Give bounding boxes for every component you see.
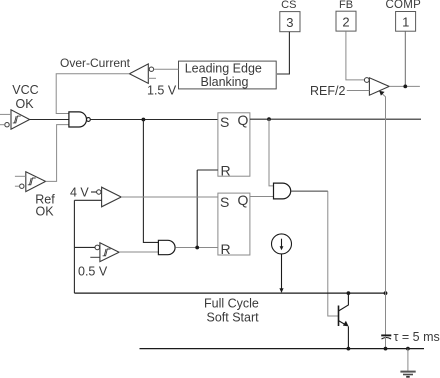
wire NAND output to latch1 S input (90, 119, 218, 121)
node junction capacitor on ground rail (384, 347, 388, 351)
wire latch1 R input (197, 169, 218, 171)
pin CS box pin 3 (280, 12, 300, 32)
pin FB box pin 2 (336, 11, 356, 31)
svg-text:1: 1 (402, 15, 409, 30)
svg-text:Leading Edge: Leading Edge (185, 62, 262, 76)
node junction ground tap on ground rail (406, 347, 410, 351)
node junction NAND output branch (142, 118, 146, 122)
wire soft-start horizontal rail (74, 292, 385, 294)
wire COMP pin down to REF/2 output node (404, 31, 406, 86)
wire VCC OK inverting input (0, 124, 5, 126)
node junction latch1 Q branch (267, 117, 271, 121)
svg-text:Q: Q (237, 112, 248, 128)
svg-text:1.5 V: 1.5 V (147, 84, 177, 98)
wire over-current output to NAND top input (56, 74, 129, 114)
block U2 Leading Edge Blanking (179, 61, 277, 89)
svg-text:Full Cycle: Full Cycle (204, 297, 259, 311)
comparator U3 over-current (points left) (129, 64, 153, 84)
svg-text:2: 2 (342, 14, 349, 29)
wire soft-start node vertical (left) (73, 200, 75, 293)
gate U6 3-input NAND (69, 112, 90, 127)
wire Ref OK inverting input (15, 185, 20, 187)
svg-text:FB: FB (339, 0, 353, 11)
node junction COMP at REF/2 output (403, 85, 407, 89)
wire VCC OK noninverting input (0, 113, 11, 115)
svg-text:Blanking: Blanking (201, 75, 249, 89)
current source I1 (272, 234, 292, 254)
svg-text:REF/2: REF/2 (310, 84, 345, 98)
node junction emitter on ground rail (347, 347, 351, 351)
pin COMP box pin 1 (396, 12, 416, 32)
gate U12 AND2 (discharge AND) (274, 183, 291, 199)
latch U7 PWM latch S Q R (218, 112, 250, 179)
wire soft-start to 0.5V comparator bubble input (74, 246, 95, 248)
wire 1.5V stub to over-current comparator (148, 77, 156, 79)
svg-text:4 V: 4 V (70, 185, 89, 199)
wire NAND output branch down to AND1 top input (143, 120, 158, 243)
wire latch1 Q down to AND2 top input (269, 119, 274, 186)
wire AND2 output to transistor base (291, 190, 328, 192)
wire AND1 output to latch2 R input (175, 247, 218, 249)
node junction capacitor on soft-start rail (384, 291, 388, 295)
wire CS pin to Leading Edge Blanking (277, 32, 289, 74)
svg-text:OK: OK (35, 205, 54, 219)
transistor Q1 NPN discharge (339, 293, 349, 349)
node junction AND1 output to latch1 R (195, 246, 199, 250)
comparator U8 4V soft-start (97, 187, 122, 207)
svg-text:0.5 V: 0.5 V (78, 265, 108, 279)
comparator U5 Ref OK (20, 172, 46, 192)
comparator U9 0.5V soft-start (95, 243, 119, 262)
wire Ref OK noninverting input (15, 175, 26, 177)
svg-text:τ = 5 ms: τ = 5 ms (394, 330, 440, 344)
comparator U4 VCC OK (5, 110, 30, 129)
wire REF/2 label to comparator input (347, 90, 370, 92)
wire soft-start clamp arrow into REF/2 comparator (379, 91, 385, 293)
gate U10 AND1 (soft-start AND) (158, 240, 175, 254)
wire FB pin to REF/2 comparator inverting input (346, 31, 364, 80)
wire 0.5V comparator output to AND1 lower input (119, 251, 158, 253)
svg-text:R: R (221, 241, 231, 257)
wire Ref OK output up to NAND bottom input (46, 125, 69, 182)
wire 4V label to comparator bubble (91, 191, 97, 193)
wire ground rail bottom (140, 348, 425, 350)
svg-text:R: R (221, 162, 231, 178)
wire current source into soft-start rail with arrowhead (279, 254, 283, 293)
wire 0.5V comparator lower input stub (90, 256, 100, 258)
capacitor C1 soft-start (tau = 5 ms) (381, 293, 391, 349)
svg-text:S: S (220, 194, 229, 210)
svg-text:Over-Current: Over-Current (60, 56, 131, 70)
node junction collector on soft-start rail (347, 291, 351, 295)
wire soft-start to 4V comparator lower input (74, 199, 101, 201)
ground symbol (400, 349, 415, 377)
latch U11 soft-start latch S Q R (218, 192, 250, 257)
svg-text:VCC: VCC (12, 83, 38, 97)
svg-text:OK: OK (15, 97, 34, 111)
svg-text:CS: CS (281, 0, 296, 11)
svg-text:COMP: COMP (385, 0, 421, 11)
wire LEB output to over-current comparator input (154, 68, 179, 70)
wire 4V comparator output to latch2 S input (121, 196, 218, 198)
comparator U13 REF/2 clamp (364, 78, 389, 96)
wire REF/2 output row (389, 85, 420, 87)
wire VCC OK output to NAND middle input (30, 119, 69, 121)
wire latch2 Q output to AND2 lower input (250, 196, 274, 198)
svg-text:Q: Q (237, 192, 248, 208)
svg-text:3: 3 (286, 15, 293, 30)
wire AND2 output vertical down to transistor base (328, 191, 339, 316)
wire latch1 R down to AND1 output node (196, 170, 198, 248)
svg-text:Soft Start: Soft Start (207, 310, 260, 324)
wire latch1 Q output row (250, 118, 421, 120)
svg-text:S: S (220, 114, 229, 130)
